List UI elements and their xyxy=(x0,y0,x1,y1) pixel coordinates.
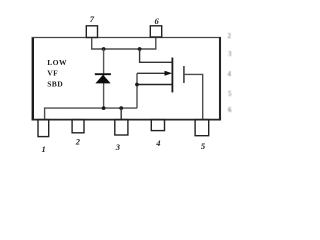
package outline bottom edge xyxy=(32,119,221,121)
svg-text:5: 5 xyxy=(228,90,232,98)
wire: gate lead to pin 5 xyxy=(184,74,203,119)
svg-text:4: 4 xyxy=(228,70,232,78)
svg-text:3: 3 xyxy=(228,50,232,58)
package outline top edge xyxy=(32,37,221,39)
transistor Q1 gate bar xyxy=(183,66,185,83)
pin 5 box xyxy=(195,120,209,136)
pin 6 box xyxy=(150,26,161,37)
svg-text:6: 6 xyxy=(155,16,160,26)
node: drain branch junction xyxy=(138,47,142,51)
svg-text:3: 3 xyxy=(115,142,121,152)
pin 2 box xyxy=(72,120,84,133)
svg-text:VF: VF xyxy=(47,69,58,78)
svg-text:5: 5 xyxy=(201,141,206,151)
wire: bottom bus from pin1 to transistor xyxy=(45,108,137,120)
package outline left edge xyxy=(32,37,34,120)
diode D1 cathode bar xyxy=(95,73,111,75)
svg-text:7: 7 xyxy=(90,14,95,24)
wire: diode vertical branch xyxy=(103,49,105,108)
svg-text:6: 6 xyxy=(228,106,232,114)
svg-text:2: 2 xyxy=(75,137,81,147)
diode D1 triangle (anode, pointing up) xyxy=(95,75,110,84)
transistor Q1 left vertical (body/source tie) xyxy=(136,73,138,108)
pin 7 box xyxy=(86,26,97,38)
wire: top bus from pin7 to pin6 xyxy=(92,38,156,49)
svg-text:SBD: SBD xyxy=(47,80,63,89)
pin 4 box xyxy=(151,120,164,131)
pin 3 box xyxy=(115,120,128,135)
wire: drain branch xyxy=(140,49,173,62)
pin 1 box xyxy=(38,120,49,137)
node: diode bottom junction xyxy=(102,106,106,110)
svg-text:1: 1 xyxy=(42,144,46,154)
wire: pin 3 stub xyxy=(120,108,122,120)
transistor Q1 body lead with arrow xyxy=(137,72,167,74)
svg-text:4: 4 xyxy=(155,138,160,148)
package outline right edge xyxy=(219,37,221,120)
node: source tie junction xyxy=(135,83,139,87)
transistor Q1 source lead xyxy=(137,84,172,86)
scan artifact: clipped text in right margin xyxy=(228,32,233,114)
transistor Q1 channel bar xyxy=(171,58,173,93)
svg-text:2: 2 xyxy=(228,32,232,40)
svg-text:LOW: LOW xyxy=(47,58,67,67)
node: diode top junction xyxy=(102,47,106,51)
node: pin 3 junction xyxy=(119,106,123,110)
